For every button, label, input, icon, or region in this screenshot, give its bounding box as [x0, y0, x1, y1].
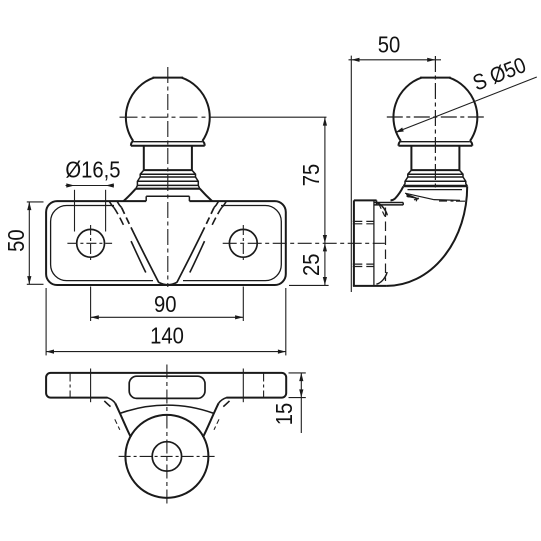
side ball vertical center line [434, 56, 436, 190]
arrows dim 50 top [351, 58, 359, 62]
dim Ø16,5 line [66, 185, 114, 187]
side view: elbow outer quarter ellipse [387, 186, 467, 286]
dim 140 extensions [45, 288, 47, 355]
bottom view hidden/center lines [70, 365, 264, 505]
dim 25 bottom extension [289, 284, 329, 286]
dim 90 extensions [90, 287, 92, 322]
side view hidden/center linework [353, 56, 485, 281]
dim 15 extensions [289, 372, 306, 374]
short center dashes at seam level [439, 200, 465, 202]
strip hidden horizontals upper [353, 220, 374, 222]
bottom view: left slant [115, 403, 131, 437]
side view: inner elbow top arc [376, 202, 387, 215]
extension to 75 dim [213, 116, 327, 118]
hidden dash-dot verticals [69, 374, 71, 398]
dim 50 top left extension (long, down side view) [350, 56, 352, 292]
front view: plate inner rounded contour [51, 206, 282, 281]
ball horizontal center line [120, 116, 214, 118]
arrows dim 140 [46, 350, 54, 354]
hidden dashes beside slants [115, 419, 120, 430]
strip hidden horizontals lower [353, 263, 374, 265]
svg-text:15: 15 [271, 403, 298, 426]
side view: inner elbow bottom arc [376, 272, 387, 284]
front view: base plate outline [46, 201, 286, 285]
dim Ø16,5 extension lines [74, 190, 76, 232]
bottom view: right slant [203, 403, 219, 437]
dim 50 top line [349, 59, 442, 61]
front view: V gusset outer edges (dashed then solid, end mid-way) [114, 207, 222, 272]
arrows dim 50 left [27, 202, 31, 210]
front view: right bolt hole [229, 229, 257, 257]
dim 50 left line [28, 202, 30, 284]
front view: ball neck [144, 146, 192, 170]
side view: plate strip outline [353, 200, 387, 286]
bottom view: shallow gusset arc [120, 405, 213, 413]
front view: bell foot curls [109, 201, 226, 207]
hole center verticals [90, 369, 92, 403]
dim 15 line [300, 373, 302, 433]
side view: gusset tab edge-on [374, 200, 403, 205]
side ball horizontal center line [387, 116, 485, 118]
side view: ball sphere [393, 78, 477, 146]
hidden diagonal dash [379, 204, 386, 218]
front view: left bolt hole [77, 229, 105, 257]
hidden vertical dash [385, 208, 387, 282]
svg-text:90: 90 [154, 291, 177, 318]
front vertical center line [167, 67, 169, 287]
side view: casting seam detail [405, 193, 460, 201]
side view: neck [411, 146, 459, 170]
front view: bell flare [124, 189, 213, 201]
front view: V gusset inner edges (dashed then solid, to apex) [122, 208, 214, 285]
side view: bell flare left going into seam [391, 186, 404, 200]
side view: seam wedge [406, 193, 418, 198]
arrows dim 90 [91, 315, 99, 319]
bottom view: center hole [152, 442, 181, 471]
dim 50 left extensions [27, 201, 44, 203]
svg-text:140: 140 [150, 322, 184, 349]
side view: collar rings [403, 170, 467, 190]
dim 140 line [46, 351, 286, 353]
right hole vertical center line [242, 225, 244, 262]
boss horizontal center line [119, 455, 216, 457]
arrows dim 25 [323, 243, 327, 251]
dim 75/25 line [324, 117, 326, 285]
bottom view: left fillet curves [104, 398, 115, 407]
arrows dim 15 [299, 373, 303, 381]
front view: collar rings [136, 170, 200, 189]
left hole vertical center line [90, 225, 92, 262]
leader S O50 [395, 77, 537, 133]
svg-text:75: 75 [298, 164, 325, 187]
bottom view: plate outline [46, 373, 286, 398]
svg-text:25: 25 [298, 254, 325, 277]
svg-text:Ø16,5: Ø16,5 [65, 156, 120, 183]
left hole horizontal center line [67, 242, 112, 244]
arrows dim 75 [323, 117, 327, 125]
svg-text:S Ø50: S Ø50 [469, 53, 529, 96]
front view: tow ball sphere [126, 78, 210, 146]
svg-text:50: 50 [3, 229, 30, 252]
arrow leader S O50 [395, 128, 404, 133]
svg-text:50: 50 [378, 31, 401, 58]
arrows dim 16,5 (outside) [66, 183, 74, 187]
bottom view: right fillet curves [219, 398, 230, 407]
boss vertical center line [166, 365, 168, 505]
dim 90 line [91, 316, 244, 318]
bottom view: center slot [129, 376, 205, 398]
bottom view: boss circle [125, 415, 208, 498]
right hole horizontal center line extended to side view [223, 242, 385, 244]
